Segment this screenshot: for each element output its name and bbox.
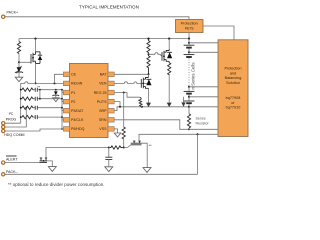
wire FET block to battery top	[188, 32, 190, 39]
node tap2	[188, 51, 190, 53]
svg-text:bq77908: bq77908	[226, 96, 241, 100]
battery cell 1	[184, 44, 195, 46]
arrow to SRP rail	[167, 103, 172, 107]
node chainY top	[168, 38, 170, 40]
svg-text:HDQ COMM: HDQ COMM	[4, 133, 24, 137]
transistor Q4 (ALERT open drain)	[40, 158, 48, 163]
node rail-resistor corner	[18, 39, 20, 42]
wire battery column	[188, 39, 190, 114]
node tap3	[188, 86, 190, 88]
svg-text:I²C: I²C	[9, 112, 14, 116]
svg-text:CE: CE	[71, 73, 77, 77]
ground	[15, 77, 23, 81]
pin stubs left	[63, 72, 69, 131]
pin labels left	[71, 73, 85, 132]
RC branch P2 : resistor R3	[21, 97, 34, 100]
node REG25	[123, 92, 125, 94]
wire ALERT	[5, 162, 40, 164]
resistor left divider top	[17, 42, 20, 54]
resistor R6	[147, 54, 150, 74]
capacitor C1	[33, 89, 35, 91]
wire	[5, 108, 27, 127]
wire REGIN extension with hop	[21, 82, 34, 84]
stub arrow	[183, 97, 185, 103]
wire SRN to box	[189, 128, 218, 129]
PACK+ terminal	[2, 15, 5, 18]
wire BAT pin	[114, 73, 149, 75]
node rail Q1	[34, 38, 36, 40]
battery cell 4	[184, 100, 195, 102]
svg-text:P5/HDQ: P5/HDQ	[71, 127, 85, 131]
wire tap2	[189, 51, 218, 53]
capacitor C3	[33, 107, 35, 109]
svg-text:Resistor: Resistor	[196, 122, 210, 126]
svg-text:bq77910: bq77910	[226, 106, 241, 110]
pin labels right	[94, 73, 108, 132]
svg-text:REGIN: REGIN	[71, 82, 83, 86]
node zener tap	[55, 89, 57, 91]
RC branch P1 : resistor R2	[21, 88, 34, 91]
wire gate Q2 with hop	[149, 53, 163, 57]
ground	[53, 98, 59, 102]
wire Q3 source	[148, 89, 150, 103]
resistor R5	[147, 39, 150, 54]
svg-text:FETs: FETs	[185, 27, 194, 31]
node	[39, 98, 41, 100]
node filter	[108, 147, 110, 149]
svg-text:Protection: Protection	[224, 67, 241, 71]
svg-text:SRN: SRN	[99, 118, 107, 122]
wire PACK- rail	[5, 173, 198, 175]
transistor Q3 (CHG FET)	[141, 76, 148, 89]
svg-text:VEN: VEN	[99, 82, 107, 86]
wire PACK- riser	[197, 134, 199, 174]
node chainX top	[147, 38, 149, 40]
resistor R9 REG25 pulldown	[123, 93, 125, 128]
wire Q5 source to ground	[142, 143, 148, 167]
node CE branch	[54, 82, 56, 84]
wire Q3 top	[148, 74, 150, 77]
wire tap5	[189, 106, 218, 108]
RC branch P4 : resistor R5	[21, 115, 34, 118]
terminal SCL	[2, 125, 5, 128]
svg-text:and: and	[230, 71, 236, 75]
svg-text:P4/CLK: P4/CLK	[71, 118, 84, 122]
wire gate of Q1	[19, 61, 31, 63]
zener D1	[17, 67, 22, 72]
wire	[168, 39, 170, 49]
node tap1	[188, 42, 190, 44]
wire VEN pin with hop	[114, 82, 150, 84]
node SRN	[188, 128, 190, 130]
transistor Q5 (optional divider FET)	[124, 145, 131, 148]
node	[119, 106, 121, 108]
battery cell 3	[184, 90, 195, 92]
pin stubs right	[108, 72, 114, 131]
transistor Q2 (DSG FET)	[162, 49, 169, 62]
resistor R7	[168, 62, 171, 75]
node tap5 SRP	[188, 106, 190, 108]
ground Q5	[143, 168, 151, 173]
wire to CE pin	[55, 74, 64, 83]
node divider tap	[18, 61, 20, 63]
wire REG25 pin	[114, 93, 140, 98]
node PACK- corner	[197, 133, 199, 135]
svg-text:Sense: Sense	[196, 116, 206, 120]
wire Q1 output	[35, 63, 37, 83]
node divider mid	[148, 53, 150, 55]
svg-text:P1: P1	[71, 91, 75, 95]
sense resistor	[187, 114, 190, 128]
wire Q4 source	[47, 161, 52, 167]
svg-text:Balancing: Balancing	[225, 76, 242, 80]
transistor Q1 (PMOS high-side)	[31, 52, 36, 64]
terminal SDA	[2, 122, 5, 125]
node	[39, 89, 41, 91]
svg-text:PUTS: PUTS	[97, 100, 107, 104]
arrow to SRP rail	[146, 103, 151, 107]
svg-text:Solution: Solution	[226, 81, 240, 85]
wire tap1	[189, 42, 218, 44]
resistor R10	[110, 146, 123, 149]
svg-text:PACK–: PACK–	[6, 170, 18, 174]
svg-text:REG 25: REG 25	[94, 91, 107, 95]
PACK- terminal	[2, 173, 5, 176]
protection and balancing solution box	[218, 40, 248, 137]
protection FETs box	[176, 20, 204, 33]
RC branch P3 : resistor R4	[21, 106, 34, 109]
wire	[35, 39, 37, 52]
wire SRP rail	[114, 107, 189, 111]
node	[123, 147, 125, 149]
svg-text:TYPICAL IMPLEMENTATION: TYPICAL IMPLEMENTATION	[79, 5, 139, 10]
arrow to PACK- rail	[105, 167, 113, 172]
wire PACK+ top rail	[5, 17, 189, 20]
wire VSS pin	[114, 129, 118, 133]
wire SRN pin	[114, 120, 189, 130]
svg-text:PACK+: PACK+	[7, 11, 19, 15]
wire HDQ	[5, 129, 64, 131]
wire tap3	[189, 86, 218, 88]
node REGIN	[35, 82, 37, 84]
wire	[18, 54, 20, 68]
node	[141, 106, 143, 108]
wire PUTS pin	[114, 102, 120, 107]
svg-text:n Series Cells: n Series Cells	[191, 62, 196, 90]
wire protection FETs to solution box	[203, 26, 234, 40]
battery cell 2	[184, 54, 195, 56]
zener D2	[55, 90, 57, 92]
svg-text:SRP: SRP	[99, 109, 107, 113]
svg-text:VSS: VSS	[99, 127, 107, 131]
ground Q4	[48, 167, 56, 172]
capacitor C5	[108, 148, 110, 158]
node tap4	[188, 96, 190, 98]
wire to REGIN pin	[36, 82, 64, 84]
vertical pin bus	[61, 90, 63, 129]
I2C bus vertical	[20, 83, 22, 123]
wire	[168, 75, 170, 102]
svg-text:** optional to reduce divider: ** optional to reduce divider power cons…	[8, 182, 105, 187]
ground VSS	[114, 133, 121, 137]
wire	[18, 73, 20, 77]
wire tap4	[189, 96, 218, 98]
IC U1	[70, 64, 109, 138]
svg-text:Protection: Protection	[181, 22, 198, 26]
svg-text:BAT: BAT	[100, 73, 108, 77]
node battery top	[188, 38, 190, 40]
svg-text:ALERT: ALERT	[6, 157, 18, 161]
resistor R8 (diagonal)	[139, 97, 142, 107]
node BAT tap	[148, 73, 150, 75]
wire	[141, 105, 143, 108]
svg-text:P3/DAT: P3/DAT	[71, 109, 84, 113]
wire Q5 drain	[139, 134, 218, 141]
vertical link P1-P2	[39, 90, 41, 99]
wire Q4 drain up	[46, 148, 109, 158]
svg-text:**: **	[149, 144, 152, 148]
wire	[5, 122, 21, 124]
terminal HDQ	[2, 129, 5, 132]
ALERT terminal	[2, 161, 5, 164]
svg-text:P2: P2	[71, 100, 75, 104]
capacitor C4	[33, 116, 35, 118]
svg-text:PROG: PROG	[6, 117, 17, 121]
dotted cells continuation	[188, 60, 190, 85]
svg-text:**: **	[37, 85, 40, 89]
wire BAT+ rail	[19, 38, 189, 40]
capacitor C2	[33, 98, 35, 100]
